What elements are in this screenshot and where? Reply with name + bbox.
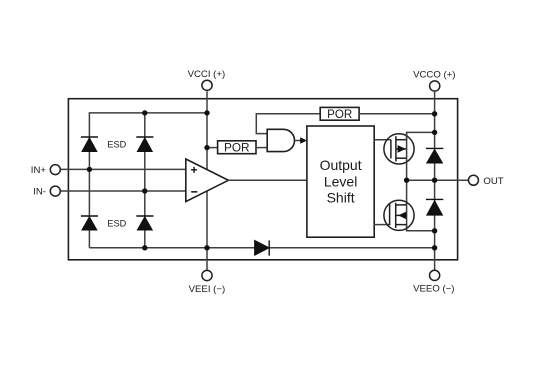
diode D7 (substrate diode on bottom rail) (255, 240, 269, 255)
wire: POR2 to AND gate upper input (256, 114, 321, 134)
node OUT / half-bridge (404, 178, 409, 183)
label VCCO (+) (413, 69, 455, 80)
svg-text:VCCO (+): VCCO (+) (413, 69, 455, 80)
terminal VCCI pin circle (202, 80, 212, 90)
node IN+ / ESD column1 (87, 167, 92, 172)
AND gate U2 (267, 129, 294, 151)
wire: OUT node line (407, 179, 469, 181)
svg-text:IN+: IN+ (31, 165, 47, 176)
svg-text:VEEI (−): VEEI (−) (189, 284, 226, 295)
terminal IN+ pin circle (50, 165, 60, 175)
wire: AND gate output with arrowhead into level shift (295, 137, 308, 144)
node IN- / ESD column2 (142, 188, 147, 193)
label IN+ (31, 165, 47, 176)
svg-text:POR: POR (327, 108, 352, 121)
terminal OUT pin circle (468, 175, 478, 185)
ESD diode D1 (IN+ to VCCI rail) (81, 137, 98, 151)
terminal VEEO pin circle (430, 270, 440, 280)
svg-text:Output: Output (320, 157, 362, 173)
label OUT (483, 176, 503, 187)
svg-text:IN-: IN- (33, 186, 46, 197)
node ESD rail / column2 top (142, 110, 147, 115)
wire: VCCI stub from terminal into box (206, 91, 208, 113)
terminal VCCO pin circle (430, 81, 440, 91)
POR block 1 (input side) (218, 141, 256, 155)
wire: Q1 source / Q2 drain vertical to OUT node (406, 132, 408, 230)
node OUT / diode column (432, 178, 437, 183)
svg-text:Level: Level (324, 173, 357, 189)
wire: ESD column 2 vertical (144, 113, 146, 248)
wire: VCCI internal power column down to VEEI (206, 113, 208, 271)
wire: top-left ESD rail (89, 113, 207, 248)
diode D5 (OUT to VCCO clamp) (426, 148, 443, 162)
op-amp U1 comparator (186, 159, 229, 202)
label IN- (33, 186, 46, 197)
svg-text:OUT: OUT (483, 176, 503, 187)
node POR2 wire / VCCO column (432, 111, 437, 116)
POR block 2 (output side) (320, 107, 359, 121)
node VCCI / top rail (204, 110, 209, 115)
Output Level Shift block (307, 126, 374, 237)
node Q2 source / VEEO column (432, 228, 437, 233)
wire: Q1 drain up to VCCO column (407, 132, 435, 139)
wire: IN+ input line (59, 168, 186, 170)
transistor Q2 (low-side MOSFET) (384, 200, 414, 230)
wire: IN- input line (59, 190, 186, 192)
wire: op-amp output to level shift box (228, 179, 307, 181)
wire: POR2 to VCCO column (359, 113, 435, 115)
node: junction dots (87, 110, 438, 250)
node VCCI / POR1 tap (204, 145, 209, 150)
terminal IN- pin circle (50, 186, 60, 196)
svg-text:VCCI (+): VCCI (+) (188, 69, 226, 80)
svg-text:Shift: Shift (327, 190, 355, 206)
diode D6 (VEEO to OUT clamp) (426, 199, 443, 215)
label VEEI (-) (189, 284, 226, 295)
node Q1 drain / VCCO column (432, 130, 437, 135)
wire: bottom VEE rail (89, 247, 434, 249)
label VCCI (+) (188, 69, 226, 80)
ESD diode D3 (VEEI rail to IN+) (81, 216, 98, 230)
node bottom rail / column2 (142, 245, 147, 250)
label VEEO (-) (413, 283, 454, 294)
ESD diode D4 (VEEI rail to IN-) (136, 216, 153, 230)
wire: VCCO column (VCCO terminal to VEEO terminal) (434, 92, 436, 271)
wire: VCCI tap to POR1 (207, 147, 218, 149)
transistor Q1 (high-side MOSFET) (384, 134, 414, 164)
svg-text:VEEO (−): VEEO (−) (413, 283, 454, 294)
wire: level shift to Q1 gate (374, 139, 391, 141)
IC outer boundary box (68, 99, 457, 260)
wire: level shift to Q2 gate (374, 224, 389, 226)
node bottom rail / VEEO column (432, 245, 437, 250)
wire: Q2 source to VEEO column (407, 225, 435, 231)
label ESD (lower pair) (107, 219, 126, 229)
terminal VEEI pin circle (202, 270, 212, 280)
svg-text:ESD: ESD (107, 140, 126, 150)
label ESD (upper pair) (107, 140, 126, 150)
wire: POR1 output to AND gate lower input (256, 147, 267, 149)
node bottom rail / VEEI column (204, 245, 209, 250)
ESD diode D2 (IN- to VCCI rail) (136, 137, 153, 151)
svg-text:ESD: ESD (107, 219, 126, 229)
svg-text:POR: POR (224, 141, 250, 155)
